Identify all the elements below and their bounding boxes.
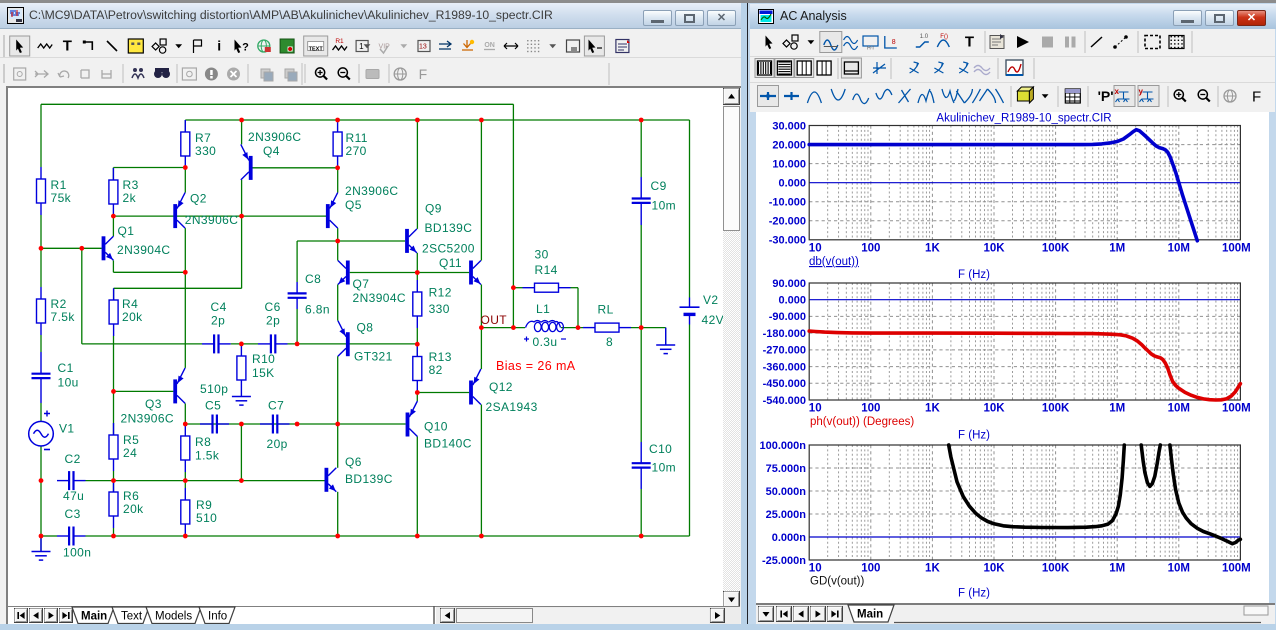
svg-text:0.000n: 0.000n [772,532,807,544]
svg-text:100.000n: 100.000n [760,440,807,452]
svg-text:BD139C: BD139C [425,221,473,235]
capacitor C2 [57,471,86,490]
resistor R3 [109,168,118,216]
svg-text:0.000: 0.000 [778,295,806,307]
wire Q11 emitter to OUT node [480,285,482,328]
wire Q9 collector from rail [416,120,418,229]
junction Vas node [335,239,340,244]
svg-text:-450.000: -450.000 [763,378,806,390]
wire Q3 base node down to R5 [113,391,115,435]
svg-text:Q6: Q6 [345,455,362,469]
svg-text:R8: R8 [195,435,211,449]
wire R14 branch [513,287,522,289]
junction Q6 base branch node [239,478,244,483]
svg-text:RL: RL [598,303,614,317]
wire OUT node down to Q12 emitter [480,328,482,369]
transistor Q11 [469,261,481,285]
resistor R9 [181,488,190,536]
svg-text:R6: R6 [123,489,139,503]
capacitor C6 [258,334,288,353]
junction rail node R11 [335,118,340,123]
svg-text:1K: 1K [925,242,940,254]
svg-text:Q12: Q12 [489,380,513,394]
svg-text:82: 82 [429,363,443,377]
ground GND2 [232,392,251,405]
svg-text:F(): F() [940,34,948,40]
wire Vas node to Q9 base [338,240,405,242]
svg-text:100K: 100K [1042,242,1070,254]
svg-text:330: 330 [429,302,450,316]
svg-text:-20.000: -20.000 [769,216,806,228]
junction R8/R9 node [183,478,188,483]
resistor R1 [37,167,46,215]
voltage source V1 [29,411,54,450]
svg-text:2k: 2k [123,191,137,205]
svg-text:20p: 20p [267,437,288,451]
svg-text:100M: 100M [1222,242,1251,254]
svg-text:Text: Text [121,611,143,623]
screen top frame edge [0,0,1276,3]
svg-text:ON: ON [484,42,495,49]
junction OUT node L1 right [576,325,581,330]
transistor Q3 [173,368,185,404]
svg-text:10: 10 [809,242,822,254]
svg-text:30.000: 30.000 [772,120,806,132]
resistor R11 [333,120,342,168]
svg-text:-30.000: -30.000 [769,235,806,247]
svg-text:R7: R7 [195,131,211,145]
svg-text:25.000n: 25.000n [766,509,807,521]
svg-text:R13: R13 [429,350,452,364]
svg-text:Q5: Q5 [345,198,362,212]
wire C4/C6 junction wire [231,343,258,345]
resistor R8 [181,424,190,472]
svg-text:Main: Main [81,611,107,623]
svg-text:1M: 1M [1109,563,1125,575]
transistor Q5 [326,193,338,229]
svg-text:Q10: Q10 [424,420,448,434]
svg-text:2SC5200: 2SC5200 [422,242,475,256]
wire Q8 collector down to bias node [337,356,339,424]
app icon [7,7,24,24]
svg-text:V2: V2 [703,293,718,307]
svg-text:R1: R1 [51,178,67,192]
wire feedback node column x=241 down [240,424,242,481]
svg-text:2p: 2p [266,314,280,328]
svg-text:R14: R14 [535,263,558,277]
wire Q3 base [114,390,174,392]
MDI background strip at bottom [0,624,1276,630]
svg-text:10.000: 10.000 [772,158,806,170]
svg-text:R9: R9 [196,498,212,512]
wire R1 to base junction [40,215,42,248]
svg-text:C6: C6 [265,300,281,314]
svg-text:H·I: H·I [867,46,874,52]
wire RL to output cap node [631,327,666,329]
svg-text:13: 13 [419,44,427,51]
title bar [750,4,1276,29]
svg-text:Akulinichev_R1989-10_spectr.CI: Akulinichev_R1989-10_spectr.CIR [936,113,1111,125]
transistor Q8 [338,321,350,357]
svg-text:Info: Info [208,611,227,623]
svg-text:Q4: Q4 [263,144,280,158]
wire V+ rail y=120 [185,119,689,121]
svg-text:C2: C2 [65,452,81,466]
svg-text:100K: 100K [1042,403,1070,415]
wire C6 to Q8 base and R12/R13 node [288,343,418,345]
wire top rail loop (V+ top wire) [41,103,513,105]
svg-text:F (Hz): F (Hz) [958,430,990,442]
junction R11/Q4 base node [335,165,340,170]
junction Q3 base node [111,389,116,394]
wire base node down to R12 [416,273,418,281]
title bar [0,3,741,29]
svg-text:Q2: Q2 [190,191,207,205]
toolbars [750,29,1275,57]
svg-text:ph(v(out)) (Degrees): ph(v(out)) (Degrees) [810,416,914,428]
resistor R4 [109,288,118,336]
svg-text:30: 30 [535,248,549,262]
svg-text:10K: 10K [983,403,1005,415]
svg-text:10M: 10M [1168,403,1190,415]
svg-text:2N3904C: 2N3904C [353,291,407,305]
svg-text:100: 100 [861,563,880,575]
svg-text:1K: 1K [925,563,940,575]
svg-text:R12: R12 [429,286,452,300]
resistor R2 [37,287,46,335]
wire Q9 emitter to Q7/Q11 base node [416,253,418,273]
svg-text:1.5k: 1.5k [195,449,220,463]
bottom tab row [756,603,1275,624]
svg-text:0.000: 0.000 [778,178,806,190]
svg-text:2p: 2p [211,314,225,328]
svg-text:50.000n: 50.000n [766,486,807,498]
bottom tab / scrollbar row [8,606,740,625]
wire C10 column [640,328,642,442]
svg-text:C5: C5 [205,399,221,413]
junction R3/Q1 collector node [111,214,116,219]
svg-text:C10: C10 [649,442,672,456]
capacitor C7 [260,415,290,434]
junction ground rail node Q6 [335,534,340,539]
wire rail corner down to R7 [184,120,186,132]
junction bias line node x297 [295,422,300,427]
svg-text:?: ? [242,42,249,54]
capacitor C9 [632,177,651,225]
svg-text:1.0: 1.0 [920,34,929,40]
junction R12/R13 node [415,342,420,347]
junction bias line node x241 [239,422,244,427]
wire input node down to C4 branch [81,248,83,344]
wire R13 bottom node to Q12 base [417,392,469,394]
wire Q4 collector down to Q2 collector node [241,180,243,288]
wire Q1 base from input node [41,247,102,249]
wire Vas node down to Q7 collector [337,241,339,261]
wire C8 to C6 node [296,309,298,344]
svg-text:1M: 1M [1109,242,1125,254]
svg-text:10m: 10m [652,461,677,475]
capacitor C10 [632,442,651,489]
wire Q6 collector from bias node [337,424,339,468]
inductor L1 [524,321,566,342]
svg-text:C8: C8 [305,272,321,286]
junction ground rail node Q12 [479,534,484,539]
svg-text:8: 8 [606,335,613,349]
junction C6/C8 node [295,342,300,347]
resistor R7 [181,120,190,168]
junction OUT node L1 left [511,325,516,330]
svg-text:Q9: Q9 [425,202,442,216]
svg-text:75k: 75k [51,191,72,205]
svg-text:C3: C3 [65,507,81,521]
svg-text:BD140C: BD140C [424,437,472,451]
junction ground rail node C10 [639,534,644,539]
svg-text:Bias = 26 mA: Bias = 26 mA [496,359,576,373]
svg-text:F (Hz): F (Hz) [958,269,990,281]
svg-text:10M: 10M [1168,563,1190,575]
svg-text:2N3906C: 2N3906C [345,184,399,198]
wire Q1 collector stub [112,216,114,236]
svg-text:100M: 100M [1222,403,1251,415]
junction ground rail node R6 [111,534,116,539]
capacitor C1 [32,352,51,403]
wire Q1 emitter to emitter node [112,260,114,272]
wire R4 bottom to Q3 base node [113,336,115,391]
svg-text:C7: C7 [268,399,284,413]
wire OUT node to L1 [481,327,525,329]
svg-text:T: T [965,34,974,51]
svg-text:100M: 100M [1222,563,1251,575]
svg-text:42V: 42V [702,313,724,327]
transistor Q2 [173,193,185,229]
wire Q4 base to R11 bottom [253,167,338,169]
svg-text:10M: 10M [1168,242,1190,254]
transistor Q4 [241,144,253,180]
wire C1 to V1 [40,403,42,422]
wire R8 bottom to R9 node [184,472,186,488]
wire Q11 collector from rail [480,120,482,261]
wire R5 bottom to C2 node [113,471,115,481]
svg-text:R1: R1 [335,38,344,45]
svg-text:R3: R3 [123,178,139,192]
wire Q10 collector to ground rail [416,437,418,538]
svg-text:510p: 510p [200,382,228,396]
svg-text:F: F [419,66,428,82]
svg-text:R4: R4 [122,297,138,311]
plots svg overlay [755,109,1276,607]
resistor R13 [413,344,422,392]
svg-text:90.000: 90.000 [772,278,806,290]
junction rail node Q9 [415,118,420,123]
wire V1 to C2 node [40,446,42,481]
svg-text:Q7: Q7 [353,277,370,291]
plot 3: group delay GD(v(out)) [760,440,1251,575]
svg-text:7.5k: 7.5k [51,310,76,324]
wire C2 node down to ground rail [40,481,42,536]
junction R8/Q3 collector node [183,422,188,427]
svg-text:47u: 47u [63,489,84,503]
junction Q2 base/R4 node [239,214,244,219]
junction ground rail node V1 [39,534,44,539]
wire C2 node down to R6 [113,481,115,492]
junction R7/Q2 emitter node [183,165,188,170]
junction ground rail node Q10 [415,534,420,539]
junction rail node C9 [639,118,644,123]
capacitor C5 [200,415,229,434]
junction R5/R6 node [111,478,116,483]
resistor R10 [237,344,246,392]
battery V2 [680,298,700,325]
junction output/C10 node [639,325,644,330]
resistor R14 [523,283,571,292]
svg-text:R11: R11 [346,131,368,145]
vertical scrollbar [723,88,740,621]
svg-text:100: 100 [861,242,880,254]
svg-text:8: 8 [892,39,896,46]
wire Q7 base to Q11 base [350,272,469,274]
svg-text:0.3u: 0.3u [533,335,558,349]
svg-text:-270.000: -270.000 [763,345,806,357]
svg-text:F: F [1252,89,1261,106]
svg-text:10: 10 [809,403,822,415]
wire R3 top corner to R7 bottom [113,167,185,169]
resistor R5 [109,423,118,471]
capacitor C8 [288,282,307,309]
wire R6 bottom to ground rail [113,528,115,536]
svg-text:20k: 20k [123,502,144,516]
svg-text:Q3: Q3 [145,397,162,411]
plots area [756,112,1269,603]
ground GND3 [656,328,675,354]
transistor Q6 [325,468,337,492]
resistor RL [583,323,631,332]
plot 1: gain db(v(out)) [769,120,1251,254]
wire R11/Q4 node down to Q5 emitter [337,168,339,193]
svg-text:-180.000: -180.000 [763,328,806,340]
svg-text:2N3906C: 2N3906C [185,213,239,227]
wire Q5 collector to Vas node [337,228,339,241]
junction emitter node Q1/Q2/Q3 [183,270,188,275]
transistor Q7 [338,261,350,285]
svg-text:TEXT: TEXT [309,47,324,53]
svg-text:-90.000: -90.000 [769,311,806,323]
wire ground rail stub to ground symbol [40,536,42,551]
junction rail node Q11 [479,118,484,123]
svg-text:Q11: Q11 [439,256,462,270]
svg-text:C1: C1 [58,361,74,375]
resistor R12 [413,280,422,328]
svg-text:100: 100 [861,403,880,415]
junction OUT node Q11/Q12 [479,325,484,330]
wire output node to ground [665,328,667,345]
wire R13 node down to Q10 emitter [416,393,418,402]
svg-text:2SA1943: 2SA1943 [486,400,538,414]
svg-text:C4: C4 [211,300,227,314]
svg-text:-360.000: -360.000 [763,361,806,373]
svg-text:BD139C: BD139C [345,472,393,486]
transistor Q12 [469,369,481,405]
svg-text:i: i [217,38,221,54]
svg-text:270: 270 [346,144,367,158]
junction C4/C6/R10 node [239,342,244,347]
canvas sunken border [6,86,741,88]
svg-text:10K: 10K [983,242,1005,254]
svg-text:F (Hz): F (Hz) [958,588,990,600]
svg-text:24: 24 [123,446,137,460]
junction Q7/Q11 base node [415,270,420,275]
wire base junction down to R2 [40,248,42,287]
junction rail node Q4 [239,118,244,123]
wire R2 to C1 [40,335,42,352]
wire R9 bottom to ground rail [184,536,186,537]
wire Vas node to C8 [297,240,338,242]
junction V1/C2 node [39,478,44,483]
svg-text:-25.000n: -25.000n [762,555,806,567]
svg-text:V1: V1 [59,422,74,436]
wire emitter node down to Q3 emitter [184,272,186,368]
svg-text:db(v(out)): db(v(out)) [809,256,859,268]
wire top rail down to OUT node [512,104,514,327]
wire C2/Q6 base line [86,480,325,482]
svg-text:20k: 20k [122,310,143,324]
junction input branch node [79,246,84,251]
wire R7 bottom to Q2 emitter [184,168,186,193]
toolbars [0,29,741,58]
wire bias line C5-C7-Q10 base [185,423,405,425]
svg-text:2N3904C: 2N3904C [117,243,171,257]
svg-text:2N3906C: 2N3906C [248,130,302,144]
plot 2: phase ph(v(out)) [763,278,1251,415]
svg-text:'P': 'P' [1098,88,1114,104]
svg-text:1M: 1M [1109,403,1125,415]
svg-text:10K: 10K [983,563,1005,575]
junction ground rail node R9 [183,534,188,539]
junction R14 branch node [511,285,516,290]
svg-text:L1: L1 [536,302,550,316]
transistor Q10 [406,401,418,437]
wire V2 column [689,120,691,298]
svg-text:Main: Main [857,609,883,621]
svg-text:R10: R10 [252,352,275,366]
wire R3 bottom node to Q5 base (through Q2) [113,215,326,217]
svg-text:100n: 100n [63,546,91,560]
svg-text:100K: 100K [1042,563,1070,575]
svg-text:330: 330 [195,144,216,158]
wire ground rail [41,535,57,537]
svg-text:C9: C9 [651,179,667,193]
schematic canvas [8,88,723,606]
svg-text:1K: 1K [925,403,940,415]
svg-text:-10.000: -10.000 [769,197,806,209]
wire L1 to RL [561,327,583,329]
svg-text:1: 1 [359,42,364,51]
capacitor C3 [57,527,86,546]
capacitor C4 [202,334,231,353]
svg-text:R2: R2 [51,297,67,311]
wire Q3 collector to R8 node [184,403,186,424]
wire left vertical from top rail to R1 [40,104,42,167]
svg-text:GD(v(out)): GD(v(out)) [810,576,864,588]
svg-text:10u: 10u [58,376,79,390]
junction Q1 base node [39,246,44,251]
svg-text:Q1: Q1 [118,224,135,238]
svg-text:6.8n: 6.8n [305,303,330,317]
svg-text:-540.000: -540.000 [763,395,806,407]
svg-text:OUT: OUT [481,313,508,327]
junction R13/Q10 emitter node [415,390,420,395]
transistor Q9 [405,229,417,253]
resistor R6 [109,481,118,528]
